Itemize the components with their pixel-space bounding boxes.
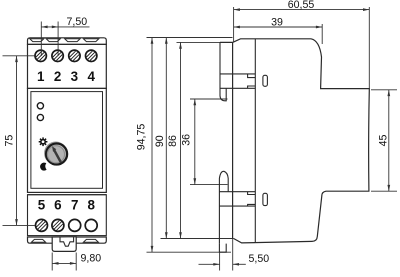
- terminal circle 7: [69, 219, 81, 231]
- sun icon: [39, 137, 48, 146]
- dimension 86: [167, 42, 233, 238]
- svg-text:5,50: 5,50: [249, 253, 270, 265]
- terminal circle 8: [85, 219, 97, 231]
- top rail hook: [220, 42, 226, 100]
- svg-text:94,75: 94,75: [136, 124, 148, 151]
- dimension 90: [154, 38, 234, 239]
- dimension 94,75: [136, 38, 233, 253]
- dimension 60,55: [234, 0, 370, 89]
- svg-text:1: 1: [37, 69, 45, 84]
- svg-text:2: 2: [54, 69, 61, 84]
- svg-text:4: 4: [87, 69, 95, 84]
- knob: [45, 142, 67, 164]
- svg-text:7: 7: [71, 198, 78, 213]
- svg-text:45: 45: [378, 135, 390, 147]
- side view body outline: [220, 39, 369, 243]
- lower terminal lines: [219, 192, 255, 206]
- dimension 39: [234, 17, 323, 45]
- front view upper terminal block: [28, 44, 107, 88]
- dimension 7,50: [41, 16, 89, 56]
- terminal screw 4: [86, 50, 97, 61]
- svg-text:3: 3: [71, 69, 78, 84]
- DIN clip tab (front view): [52, 237, 76, 252]
- dimension 75: [3, 56, 36, 226]
- terminal screw 6: [52, 219, 64, 231]
- LED 2: [37, 114, 43, 120]
- dimension 9,80: [52, 253, 101, 271]
- lower side vent slot: [263, 193, 268, 205]
- middle section inner frame: [31, 92, 103, 189]
- svg-text:8: 8: [87, 198, 95, 213]
- svg-text:75: 75: [4, 135, 16, 147]
- bottom cap slots: [31, 239, 98, 242]
- svg-text:86: 86: [167, 135, 179, 147]
- side view internal vertical line: [254, 39, 256, 243]
- top cap slots: [30, 39, 99, 42]
- front view top cap: [28, 38, 107, 45]
- dimension 5,50: [199, 239, 270, 271]
- terminal screw 2: [52, 50, 63, 61]
- svg-text:90: 90: [154, 135, 166, 147]
- terminal screw 3: [69, 50, 80, 61]
- front view bottom cap: [28, 237, 107, 243]
- front view middle section: [28, 88, 107, 194]
- terminal screw 1: [35, 50, 46, 61]
- clip foot: [219, 244, 226, 253]
- upper side vent slot: [263, 75, 268, 86]
- dimension 36: [181, 99, 228, 185]
- moon icon: [40, 163, 47, 171]
- svg-text:5: 5: [38, 198, 46, 213]
- svg-text:60,55: 60,55: [288, 0, 315, 11]
- svg-text:7,50: 7,50: [67, 16, 88, 28]
- LED 1: [37, 103, 43, 109]
- bottom spring clip: [219, 171, 228, 243]
- dimension 45: [371, 90, 397, 191]
- terminal numbers 5 6 7 8: [38, 198, 96, 213]
- upper terminal lines: [220, 74, 255, 88]
- svg-text:36: 36: [181, 134, 193, 146]
- terminal numbers 1 2 3 4: [37, 69, 95, 84]
- svg-text:39: 39: [271, 17, 283, 29]
- svg-text:6: 6: [54, 198, 61, 213]
- terminal screw 5: [36, 219, 48, 231]
- svg-text:9,80: 9,80: [81, 253, 102, 265]
- front view lower terminal block: [28, 195, 107, 236]
